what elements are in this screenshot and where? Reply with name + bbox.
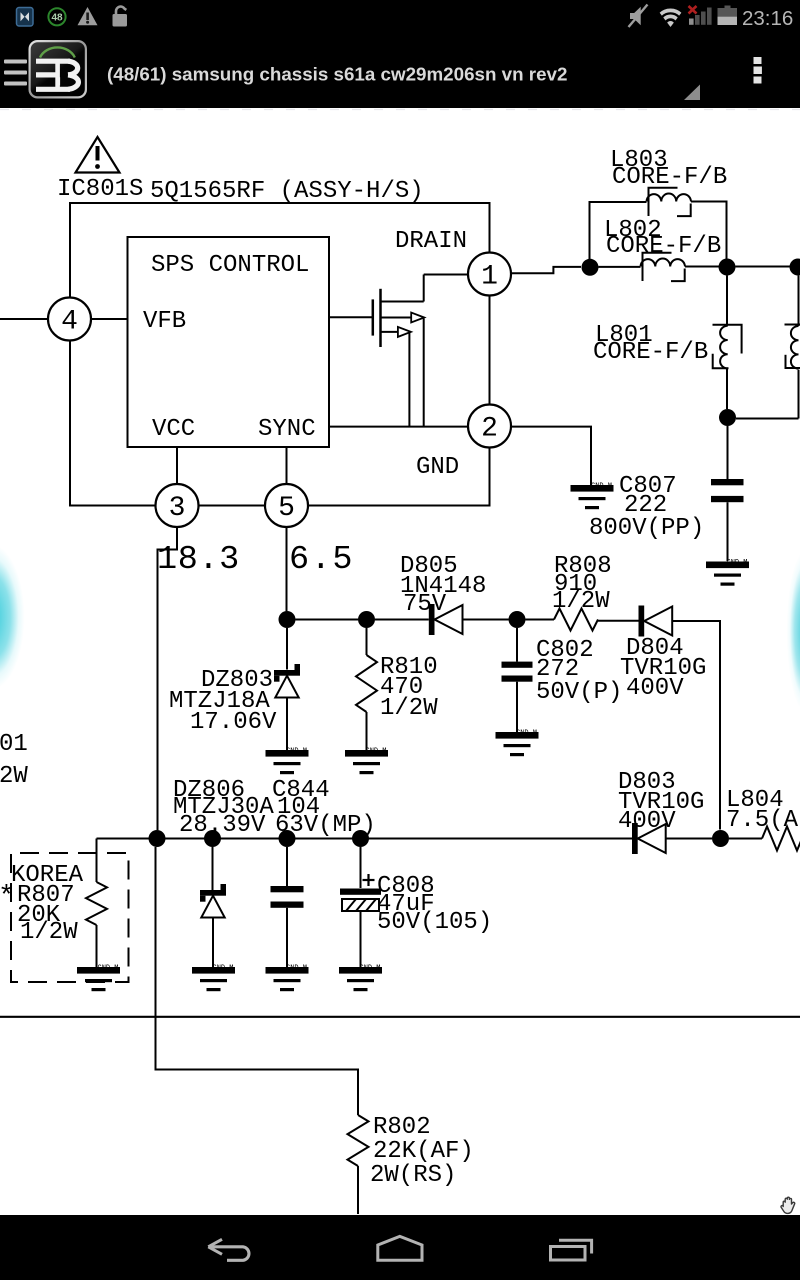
zener DZ803 bbox=[274, 664, 300, 698]
svg-text:1/2W: 1/2W bbox=[20, 919, 78, 946]
pin circle 5 bbox=[265, 484, 308, 527]
hand pan cursor bbox=[778, 1194, 800, 1220]
wire C807 to ground bbox=[727, 502, 729, 561]
capacitor C808 hatched plate bbox=[342, 899, 379, 911]
wire J7 to R808 bbox=[526, 619, 555, 621]
wire VCC to pin 3 bbox=[176, 447, 178, 484]
svg-text:63V(MP): 63V(MP) bbox=[275, 812, 376, 839]
capacitor C844 bbox=[271, 886, 304, 892]
IC801S outer boundary wires bbox=[70, 203, 490, 298]
svg-text:DRAIN: DRAIN bbox=[395, 228, 467, 255]
wire pin2 to ground bbox=[512, 427, 592, 485]
nav recents button bbox=[551, 1240, 592, 1260]
wire drain to pin 1 bbox=[424, 274, 468, 276]
wire pin1 to node J1 bbox=[511, 267, 581, 273]
pin circle 4 bbox=[48, 298, 91, 341]
svg-text:3: 3 bbox=[169, 493, 186, 524]
svg-text:2W: 2W bbox=[0, 763, 28, 790]
svg-text:23:16: 23:16 bbox=[742, 7, 793, 30]
zener DZ803 branch bbox=[286, 628, 288, 670]
overscroll glow left bbox=[0, 517, 44, 717]
resistor R810 bbox=[356, 655, 377, 712]
status icon unlocked padlock bbox=[113, 7, 128, 27]
wire pin5 to pin2 bottom bbox=[308, 448, 490, 506]
junction node J8 bbox=[712, 830, 729, 847]
junction node J4 bbox=[719, 409, 736, 426]
wire J2 down to L801 bbox=[726, 276, 728, 326]
svg-text:01: 01 bbox=[0, 731, 28, 758]
svg-text:800V(PP): 800V(PP) bbox=[589, 515, 704, 542]
partial component at right screen edge bbox=[785, 276, 800, 419]
zener DZ806 bbox=[200, 884, 226, 918]
dashed KOREA option box bbox=[11, 853, 129, 982]
lower bus wire bbox=[97, 838, 633, 840]
svg-text:GND: GND bbox=[416, 454, 459, 481]
svg-text:17.06V: 17.06V bbox=[190, 709, 277, 736]
ground below C808 bbox=[339, 965, 382, 992]
junction node J7 bbox=[509, 611, 526, 628]
junction node B4 bbox=[352, 830, 369, 847]
EBookDroid logo bbox=[29, 40, 88, 99]
nav back button bbox=[208, 1239, 249, 1260]
svg-text:R802: R802 bbox=[373, 1114, 431, 1141]
svg-text:SYNC: SYNC bbox=[258, 416, 316, 443]
transistor Q (SPS MOSFET) bbox=[329, 275, 424, 348]
wire D804 down to node J8 bbox=[672, 621, 720, 830]
svg-text:GND_M: GND_M bbox=[727, 559, 748, 567]
svg-text:7.5(A: 7.5(A bbox=[726, 807, 799, 834]
capacitor C808 branch (electrolytic) bbox=[360, 847, 362, 888]
status icon warning triangle bbox=[78, 7, 98, 25]
junction node J1 bbox=[582, 259, 599, 276]
svg-text:400V: 400V bbox=[626, 675, 684, 702]
resistor R807 bbox=[86, 882, 107, 925]
wire J8 to L804 bbox=[729, 838, 762, 840]
mosfet source arrow bbox=[398, 327, 411, 337]
status icon blue app bbox=[17, 8, 34, 27]
svg-text:400V: 400V bbox=[618, 808, 676, 835]
svg-text:GND_M: GND_M bbox=[286, 748, 307, 756]
R807 branch (KOREA) bbox=[96, 839, 98, 883]
svg-text:SPS CONTROL: SPS CONTROL bbox=[151, 252, 309, 279]
status icon wifi bbox=[656, 10, 685, 39]
svg-text:GND_M: GND_M bbox=[98, 965, 119, 973]
ground below pin 2 bbox=[571, 483, 614, 510]
overflow menu dots bbox=[754, 57, 762, 84]
svg-text:48: 48 bbox=[51, 12, 63, 23]
wire C802 to ground bbox=[516, 682, 518, 732]
ground below DZ803 bbox=[266, 748, 309, 775]
svg-text:CORE-F/B: CORE-F/B bbox=[612, 164, 727, 191]
svg-text:GND_M: GND_M bbox=[213, 965, 234, 973]
ground below C802 bbox=[496, 730, 539, 757]
svg-text:GND_M: GND_M bbox=[591, 483, 612, 491]
wire J6 to D805 bbox=[375, 619, 429, 621]
svg-text:VFB: VFB bbox=[143, 308, 186, 335]
nav home button bbox=[378, 1236, 422, 1260]
svg-text:1: 1 bbox=[481, 262, 498, 293]
junction node J6 bbox=[358, 611, 375, 628]
svg-text:GND_M: GND_M bbox=[366, 748, 387, 756]
wire D803 to node J8 bbox=[666, 838, 713, 840]
wire J5 to J6 bbox=[296, 619, 359, 621]
status icon battery-level 48 bbox=[48, 8, 65, 25]
resistor R808 bbox=[554, 609, 598, 631]
svg-text:IC801S: IC801S bbox=[57, 176, 143, 203]
diode D805 bbox=[429, 604, 463, 635]
wire body to pin2 net bbox=[423, 319, 425, 427]
junction node J2 bbox=[719, 259, 736, 276]
wire L801 to node J4 bbox=[726, 368, 728, 409]
wire pin5 down to node J5 bbox=[286, 527, 288, 611]
overscroll glow right bbox=[775, 518, 800, 744]
wire pin 4 to VFB bbox=[91, 318, 128, 320]
wire J4 to right edge bbox=[736, 418, 799, 420]
svg-text:5: 5 bbox=[278, 493, 295, 524]
pin circle 3 bbox=[156, 484, 199, 527]
pin circle 2 bbox=[468, 405, 511, 448]
ground below R807 bbox=[77, 965, 120, 992]
status icon mute speaker bbox=[629, 5, 648, 28]
resistor R802 bbox=[348, 1115, 369, 1166]
wire box to pin 2 bbox=[329, 426, 468, 428]
wire pin3-pin5 bbox=[199, 505, 266, 507]
mosfet body arrow bbox=[411, 313, 424, 323]
page divider wire bbox=[0, 1016, 800, 1018]
wire R810 to ground bbox=[366, 712, 368, 750]
wire left edge to pin 4 bbox=[0, 318, 48, 320]
capacitor C802 bbox=[502, 662, 533, 668]
wire D805 to node J7 bbox=[463, 619, 509, 621]
wire J1 to L802 bbox=[599, 266, 641, 268]
wire C808 to ground bbox=[360, 911, 362, 967]
hamburger menu icon bbox=[4, 60, 27, 86]
ground below C844 bbox=[266, 965, 309, 992]
svg-text:VCC: VCC bbox=[152, 416, 195, 443]
wire C844 to ground bbox=[286, 908, 288, 967]
svg-text:GND_M: GND_M bbox=[286, 965, 307, 973]
junction node J5 bbox=[279, 611, 296, 628]
wire pin1 to pin2 bbox=[489, 296, 491, 405]
svg-text:1/2W: 1/2W bbox=[380, 695, 438, 722]
wire bottom bus to R802 bbox=[156, 847, 359, 1115]
svg-text:CORE-F/B: CORE-F/B bbox=[593, 339, 708, 366]
svg-text:22K(AF): 22K(AF) bbox=[373, 1138, 474, 1165]
svg-text:1/2W: 1/2W bbox=[552, 588, 610, 615]
svg-text:GND_M: GND_M bbox=[516, 730, 537, 738]
warning triangle symbol above IC801S bbox=[76, 137, 120, 173]
faint cut-off dashed line at top of page bbox=[0, 109, 800, 111]
wire L803 right down bbox=[691, 202, 727, 260]
svg-text:50V(P): 50V(P) bbox=[536, 679, 622, 706]
ground below C807 bbox=[706, 559, 749, 586]
svg-text:4: 4 bbox=[61, 307, 78, 338]
svg-text:*: * bbox=[0, 882, 15, 913]
wire L803 upper branch bbox=[590, 202, 647, 259]
SPS CONTROL box U-IC bbox=[128, 237, 330, 447]
svg-text:2: 2 bbox=[481, 414, 498, 445]
ground below R810 bbox=[345, 748, 388, 775]
status icon signal bars with red x bbox=[689, 6, 712, 25]
junction node B2 bbox=[204, 830, 221, 847]
capacitor C844 branch bbox=[286, 847, 288, 886]
svg-text:CORE-F/B: CORE-F/B bbox=[606, 233, 721, 260]
inductor L803 bbox=[647, 188, 692, 216]
resistor R810 branch bbox=[366, 628, 368, 655]
svg-text:28.39V: 28.39V bbox=[179, 812, 266, 839]
wire pin3 down to bottom bus bbox=[158, 527, 178, 830]
inductor L801 bbox=[713, 325, 742, 369]
inductor L804 (clipped at right) bbox=[762, 827, 800, 851]
svg-text:5Q1565RF (ASSY-H/S): 5Q1565RF (ASSY-H/S) bbox=[150, 178, 424, 205]
wire source to pin2 net bbox=[408, 333, 410, 427]
svg-text:75V: 75V bbox=[403, 591, 447, 618]
capacitor C808 plus plate bbox=[340, 889, 381, 895]
diode D803 bbox=[632, 823, 666, 854]
capacitor C802 branch bbox=[516, 628, 518, 662]
ground below DZ806 bbox=[192, 965, 235, 992]
diode D804 bbox=[639, 606, 673, 637]
wire R808 to D804 bbox=[598, 620, 639, 622]
svg-text:18.3: 18.3 bbox=[157, 541, 240, 579]
junction node J3 (clipped) bbox=[790, 259, 800, 276]
svg-text:50V(105): 50V(105) bbox=[377, 909, 492, 936]
junction node B3 bbox=[279, 830, 296, 847]
svg-text:2W(RS): 2W(RS) bbox=[370, 1162, 456, 1189]
junction node B1 bbox=[149, 830, 166, 847]
wire DZ803 to ground bbox=[286, 698, 288, 751]
pin circle 1 bbox=[468, 253, 511, 296]
inductor L802 bbox=[641, 253, 686, 281]
wire R807 to ground bbox=[96, 925, 98, 967]
wire DZ806 to ground bbox=[212, 918, 214, 968]
svg-text:GND_M: GND_M bbox=[360, 965, 381, 973]
wire J2 to right node bbox=[736, 266, 792, 268]
capacitor C807 bbox=[711, 479, 744, 502]
wire R802 to page bottom bbox=[357, 1166, 359, 1214]
wire SYNC to pin 5 bbox=[286, 447, 288, 484]
wire J4 down to capacitor C807 bbox=[727, 426, 729, 479]
wire L802 to node J2 bbox=[685, 266, 719, 268]
svg-text:6.5: 6.5 bbox=[289, 541, 354, 579]
status icon battery bbox=[718, 6, 738, 26]
svg-text:(48/61) samsung chassis s61a c: (48/61) samsung chassis s61a cw29m206sn … bbox=[107, 64, 567, 85]
zener DZ806 branch bbox=[212, 847, 214, 890]
corner resize triangle bbox=[684, 85, 700, 101]
